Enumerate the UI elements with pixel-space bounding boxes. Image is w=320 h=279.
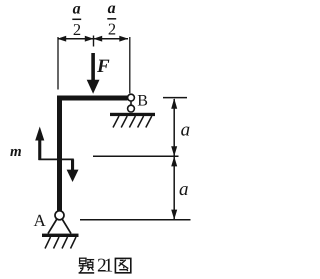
svg-text:a: a [73,0,81,17]
svg-text:1: 1 [104,256,114,277]
svg-text:A: A [34,211,47,230]
svg-text:F: F [96,56,110,77]
svg-text:a: a [108,0,116,17]
svg-text:2: 2 [73,20,81,39]
svg-text:a: a [181,120,191,141]
svg-text:a: a [179,179,189,200]
svg-text:2: 2 [108,19,116,38]
svg-text:m: m [10,144,22,160]
svg-text:B: B [137,93,148,110]
